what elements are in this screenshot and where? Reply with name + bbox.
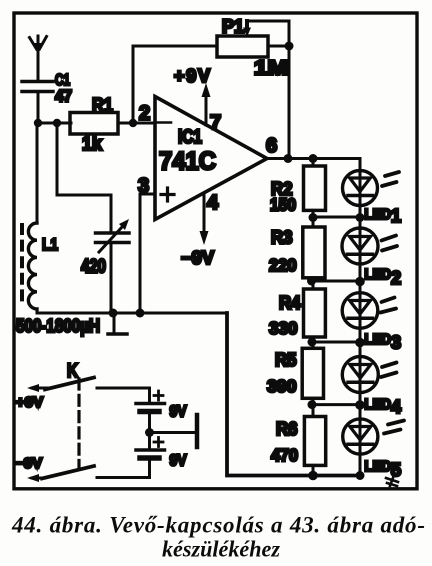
pin 7 +9V xyxy=(202,83,211,125)
svg-text:IC1: IC1 xyxy=(178,127,202,148)
op-amp U1 741C xyxy=(155,97,267,220)
svg-text:3: 3 xyxy=(391,333,401,353)
svg-text:9V: 9V xyxy=(170,404,187,421)
svg-text:L1: L1 xyxy=(42,235,58,254)
node H xyxy=(136,309,145,318)
svg-text:R3: R3 xyxy=(271,228,293,248)
LED4 xyxy=(342,357,396,393)
svg-text:−9V: −9V xyxy=(181,248,214,268)
rung 3 xyxy=(313,341,360,344)
node C (feedback tap) xyxy=(129,119,137,127)
battery B1 9V xyxy=(136,388,165,450)
pin 3 wire xyxy=(140,194,155,313)
resistor R3 xyxy=(303,217,325,281)
battery B2 9V xyxy=(136,450,165,478)
svg-text:420: 420 xyxy=(81,257,106,278)
svg-text:390: 390 xyxy=(267,376,297,396)
rung 4 xyxy=(313,403,360,406)
frame border xyxy=(14,13,417,489)
svg-text:150: 150 xyxy=(270,195,296,215)
svg-text:220: 220 xyxy=(269,255,297,275)
wire R1 to pin2 xyxy=(118,122,155,125)
svg-text:2: 2 xyxy=(391,268,401,288)
svg-text:K: K xyxy=(67,361,78,382)
node E xyxy=(284,154,293,163)
svg-text:P1: P1 xyxy=(222,17,244,37)
wire P1 rail down to output xyxy=(288,46,291,159)
svg-text:R1: R1 xyxy=(92,96,113,117)
ground stub xyxy=(108,313,127,334)
resistor R6 xyxy=(304,405,325,476)
pin 4 -9V xyxy=(200,193,209,245)
svg-text:LED: LED xyxy=(365,207,392,223)
wire feedback up xyxy=(133,46,217,123)
svg-text:LED: LED xyxy=(365,459,392,475)
svg-text:2: 2 xyxy=(139,103,150,125)
wire bottom of tank xyxy=(37,312,227,315)
svg-text:6: 6 xyxy=(266,135,277,157)
svg-text:4: 4 xyxy=(207,192,219,214)
svg-text:7: 7 xyxy=(210,112,221,134)
svg-text:1: 1 xyxy=(391,206,401,226)
svg-text:R6: R6 xyxy=(276,419,298,439)
bottom rail nodes xyxy=(308,471,318,481)
inductor L1 xyxy=(22,123,37,313)
svg-text:47: 47 xyxy=(55,87,72,106)
rung 1 xyxy=(313,216,360,219)
svg-text:R4: R4 xyxy=(279,293,301,313)
LED3 xyxy=(342,293,396,329)
resistor R4 xyxy=(304,281,326,342)
svg-text:4: 4 xyxy=(391,397,401,417)
svg-text:44. ábra. Vevő-kapcsolás a 43.: 44. ábra. Vevő-kapcsolás a 43. ábra adó- xyxy=(11,513,425,538)
print mark under LED5 label xyxy=(386,475,398,486)
svg-text:R5: R5 xyxy=(275,350,297,370)
pin 6 output wire xyxy=(267,157,360,160)
svg-text:330: 330 xyxy=(269,318,298,338)
potentiometer P1 xyxy=(217,21,289,57)
variable capacitor 420 xyxy=(57,123,129,313)
svg-text:+9V: +9V xyxy=(16,394,43,411)
centre tap terminal xyxy=(150,415,198,447)
svg-text:9V: 9V xyxy=(170,453,187,470)
svg-text:LED: LED xyxy=(365,397,392,413)
svg-text:1M: 1M xyxy=(254,58,288,80)
resistor R2 xyxy=(304,159,326,218)
LED1 xyxy=(343,171,400,206)
node G xyxy=(109,309,118,318)
svg-text:LED: LED xyxy=(365,332,392,348)
resistor R1 xyxy=(70,113,118,135)
LED column wire xyxy=(359,159,362,476)
wire down to bottom rail xyxy=(227,313,361,476)
svg-text:LED: LED xyxy=(365,267,392,283)
LED5 xyxy=(343,419,404,454)
resistor R5 xyxy=(302,342,323,405)
node D (P1 to feedback rail) xyxy=(285,42,294,51)
node A (antenna/C1/L1) xyxy=(34,119,42,127)
svg-text:741C: 741C xyxy=(159,148,216,176)
node F xyxy=(309,154,318,163)
antenna xyxy=(30,36,47,81)
node B (tuning cap tap) xyxy=(53,119,61,127)
svg-text:470: 470 xyxy=(271,445,298,465)
wire node row xyxy=(38,122,71,125)
rung 2 xyxy=(313,280,360,283)
svg-text:készülékéhez: készülékéhez xyxy=(162,537,280,562)
capacitor C1 xyxy=(22,82,53,124)
node I (battery centre tap) xyxy=(145,428,154,437)
svg-text:500-1800µH: 500-1800µH xyxy=(16,316,100,336)
svg-text:−9V: −9V xyxy=(15,455,42,472)
svg-text:1k: 1k xyxy=(82,134,102,155)
svg-text:+9V: +9V xyxy=(174,66,210,86)
LED2 xyxy=(342,228,397,264)
